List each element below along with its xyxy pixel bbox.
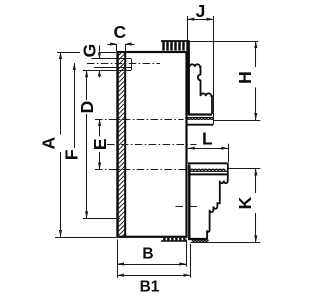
A bottom extension	[55, 237, 116, 239]
A top extension	[57, 52, 80, 54]
G arrows	[98, 53, 101, 59]
lower jaw bottom serration	[192, 240, 208, 242]
lower jaw centerline	[95, 169, 197, 171]
lower jaw serration thin line	[190, 170, 228, 172]
lower jaw stepped profile	[207, 163, 228, 239]
dimension thin lines	[55, 16, 260, 278]
D arrows	[85, 70, 88, 77]
K dimension line	[255, 169, 257, 194]
D dimension line	[86, 70, 88, 100]
svg-text:K: K	[235, 196, 255, 209]
svg-text:J: J	[196, 1, 206, 21]
lower jaw serration bumps	[190, 169, 225, 171]
top jaw serration thin line	[187, 117, 213, 119]
lower jaw back face	[188, 165, 190, 239]
svg-text:H: H	[235, 71, 255, 84]
top jaw serration bumps	[188, 118, 214, 120]
C arrows	[110, 42, 117, 45]
H bottom extension	[214, 120, 261, 122]
D bottom extension	[83, 218, 120, 220]
J dimension line	[187, 19, 213, 21]
svg-text:A: A	[38, 137, 58, 150]
main axis centerline	[107, 144, 197, 146]
L right extension	[228, 144, 230, 163]
C extension lines	[116, 44, 118, 51]
K top extension	[229, 168, 261, 170]
B1 dimension line	[117, 275, 190, 277]
B1 arrows	[117, 274, 124, 277]
C dimension line	[107, 44, 116, 46]
bolt hole centerline	[87, 63, 160, 65]
svg-text:B: B	[142, 246, 153, 263]
B dimension line	[117, 264, 186, 266]
top jaw centerline	[95, 119, 184, 121]
svg-text:B1: B1	[140, 279, 160, 296]
E arrows	[98, 119, 101, 126]
arrowheads	[59, 18, 258, 277]
K arrows	[254, 169, 257, 176]
lower jaw serration baseline	[188, 173, 228, 175]
H dimension line	[255, 41, 257, 67]
svg-text:L: L	[202, 129, 213, 149]
G dimension line lower segment	[99, 70, 101, 77]
A dimension line	[60, 52, 62, 135]
chuck body	[117, 52, 186, 237]
svg-text:G: G	[79, 44, 99, 58]
L dimension line	[188, 148, 229, 150]
backplate hatching	[114, 49, 125, 245]
top jaw foot bottom	[188, 113, 212, 115]
top jaw back face	[187, 41, 189, 115]
svg-text:E: E	[90, 138, 110, 150]
E dimension line	[99, 119, 101, 137]
bottom comb teeth	[161, 238, 186, 241]
bolt hole top edge	[92, 58, 132, 60]
F dimension line	[74, 63, 76, 148]
A arrows	[59, 52, 62, 59]
H top extension	[190, 41, 258, 43]
F arrow	[73, 63, 76, 70]
svg-text:C: C	[113, 22, 126, 42]
B arrows	[117, 262, 124, 265]
lower jaw top face line	[188, 162, 228, 164]
bottom extension lines	[117, 240, 119, 278]
J extension lines	[187, 16, 189, 41]
bolt hole thread line	[94, 67, 131, 69]
svg-text:D: D	[77, 101, 97, 114]
top jaw master face line	[187, 124, 214, 126]
lower jaw foot bottom	[188, 238, 208, 240]
svg-text:F: F	[61, 149, 81, 160]
top jaw stepped profile	[190, 64, 212, 114]
bolt hole bottom edge / D top extension	[83, 70, 132, 72]
J arrows	[187, 18, 194, 21]
lower jaw screw centerline	[176, 206, 198, 208]
bolt hole end	[131, 59, 133, 71]
top comb teeth	[161, 41, 190, 51]
H arrows	[254, 41, 257, 48]
backplate cross-section	[118, 52, 125, 237]
L arrows	[188, 147, 195, 150]
K bottom extension	[191, 242, 261, 244]
G dimension line upper segment	[99, 46, 101, 59]
